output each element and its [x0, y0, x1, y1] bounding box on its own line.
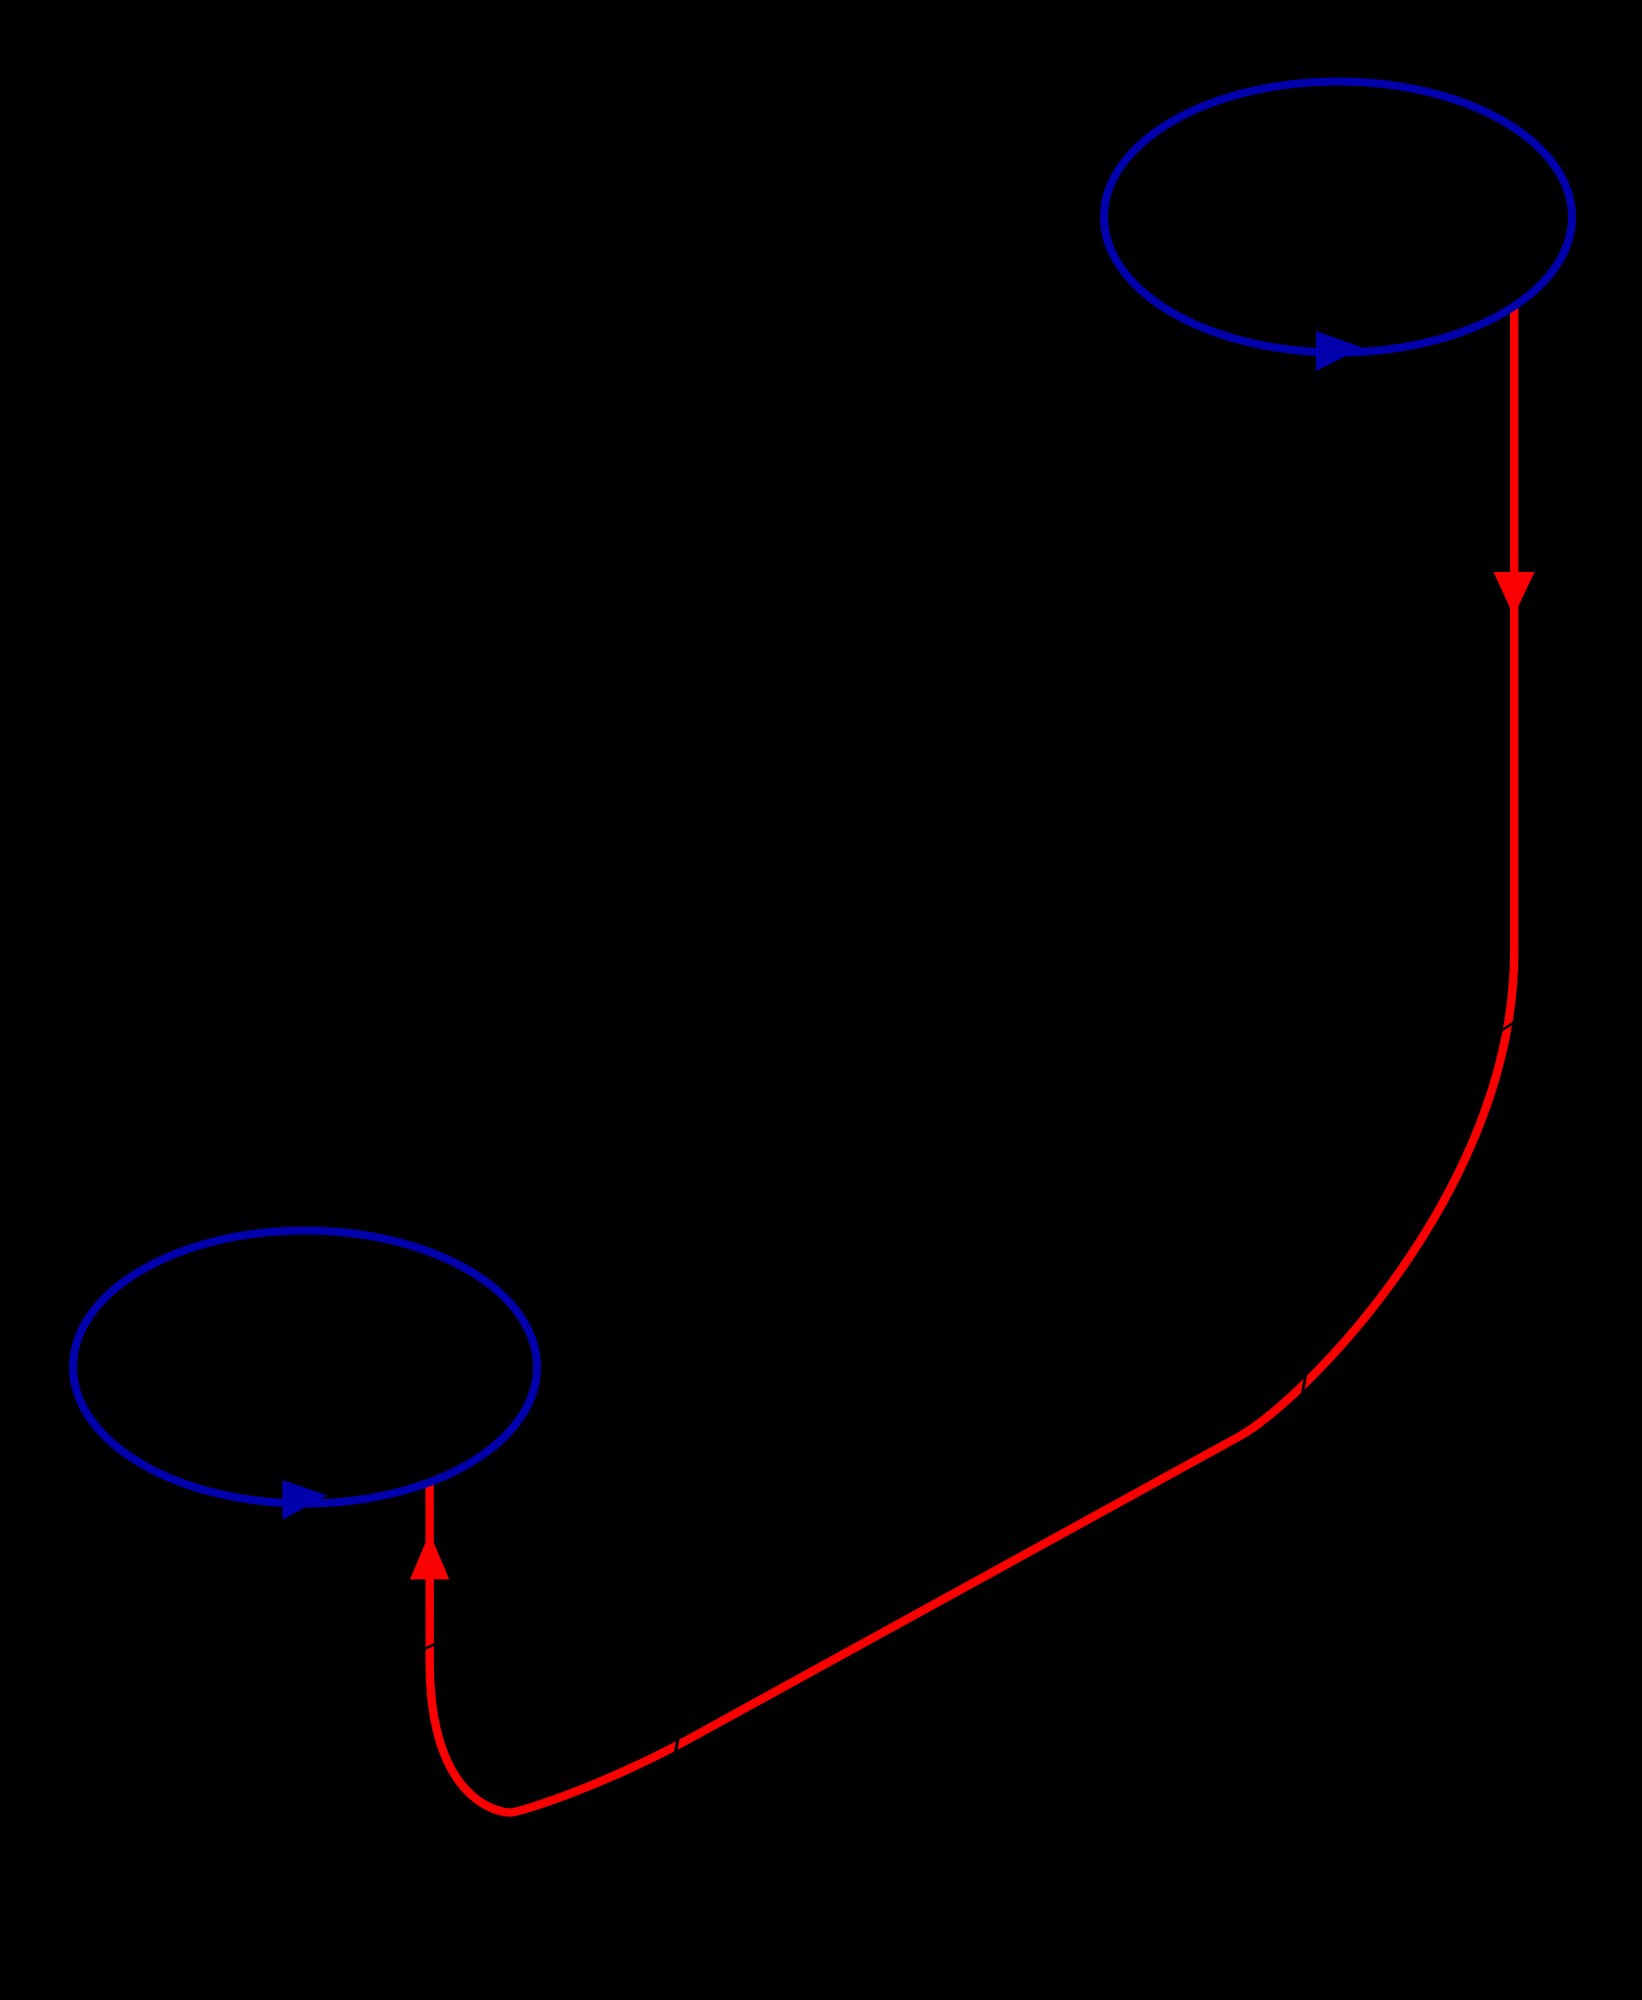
limit cycle ellipse top-right — [1104, 82, 1572, 353]
gap A black crossing — [1498, 1023, 1514, 1033]
red arrowhead down on vertical segment — [1494, 572, 1535, 616]
wire red trajectory — [430, 308, 1515, 1813]
gap B black crossing — [1303, 1375, 1306, 1393]
blue arrowhead on top ellipse — [1316, 331, 1363, 371]
red arrowhead up near lower ellipse — [410, 1533, 449, 1580]
gap C black crossing — [675, 1739, 678, 1754]
limit cycle ellipse bottom-left — [73, 1231, 537, 1504]
gap D black crossing — [424, 1644, 436, 1650]
blue arrowhead on bottom ellipse — [282, 1480, 327, 1520]
